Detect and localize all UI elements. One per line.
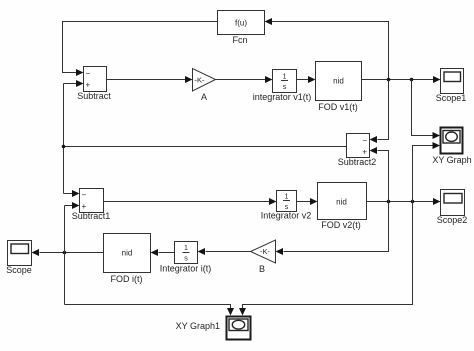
wire arrow into Subtract2 plus xyxy=(370,147,378,154)
block FOD v1(t) nid xyxy=(316,62,362,101)
wire Subtract output to gain A xyxy=(107,79,186,81)
wire v2 down to gain B xyxy=(284,202,389,252)
block Scope xyxy=(8,241,32,266)
svg-text:FOD v1(t): FOD v1(t) xyxy=(318,102,358,112)
svg-text:1: 1 xyxy=(283,74,287,81)
wire arrow into integrator v1 xyxy=(265,76,273,83)
svg-text:Subtract2: Subtract2 xyxy=(338,157,377,167)
svg-text:Subtract1: Subtract1 xyxy=(72,211,111,221)
wire Subtract2 output left xyxy=(64,146,347,148)
block integrator v1 1/s xyxy=(273,70,297,93)
wire arrow into Subtract2 minus xyxy=(370,136,378,143)
wire arrow into XY Graph input1 xyxy=(433,132,441,139)
wire to Subtract1 plus xyxy=(65,205,73,207)
block FOD i(t) nid xyxy=(104,234,151,273)
wire i net bottom to XY Graph1 input1 xyxy=(65,305,231,309)
wire FOD v2 output to Scope2 xyxy=(367,201,434,203)
wire arrow into XY Graph input2 xyxy=(433,142,441,149)
wire Subtract1 output to Integrator v2 xyxy=(104,201,270,203)
svg-text:Integrator i(t): Integrator i(t) xyxy=(160,264,212,274)
block XY Graph1 xyxy=(227,317,251,340)
svg-text:+: + xyxy=(362,148,367,157)
svg-text:s: s xyxy=(184,256,188,263)
block Subtract2 xyxy=(347,134,370,158)
wire gain A to integrator v1 xyxy=(216,79,266,81)
svg-text:FOD i(t): FOD i(t) xyxy=(111,274,143,284)
wire arrow into Subtract plus xyxy=(76,80,84,87)
svg-text:nid: nid xyxy=(336,198,347,207)
svg-text:Scope2: Scope2 xyxy=(437,215,468,225)
wire v1 feedback to Fcn input xyxy=(272,22,389,80)
wire arrow into FOD i xyxy=(151,249,159,256)
wire FOD i output to Scope xyxy=(40,252,104,254)
node junction v1 net right xyxy=(410,78,414,82)
svg-text:XY Graph1: XY Graph1 xyxy=(176,321,220,331)
wire v2 up to XY Graph input2 xyxy=(413,146,434,202)
wire arrow into Scope xyxy=(32,249,40,256)
wire v1 down to Subtract2 minus xyxy=(378,80,389,140)
svg-text:B: B xyxy=(259,264,265,274)
block Scope1 xyxy=(441,69,464,94)
svg-text:nid: nid xyxy=(122,249,133,258)
wire Subtract2 net vertical xyxy=(63,84,65,194)
svg-text:s: s xyxy=(283,84,287,91)
wire arrow into XY Graph1 input1 xyxy=(227,308,234,316)
svg-text:−: − xyxy=(86,69,91,78)
wire Integrator i to FOD i xyxy=(159,252,175,254)
gain A xyxy=(193,69,216,92)
wire to Subtract1 minus xyxy=(64,193,73,195)
wire v2 up to Subtract2 plus xyxy=(378,151,389,202)
svg-text:Integrator v2: Integrator v2 xyxy=(261,211,312,221)
node junction Subtract2 net xyxy=(62,145,66,149)
svg-text:Scope: Scope xyxy=(6,265,32,275)
block Subtract1 xyxy=(80,189,104,213)
svg-text:−: − xyxy=(362,136,367,145)
gain B xyxy=(251,240,276,263)
svg-text:nid: nid xyxy=(333,77,344,86)
block Subtract xyxy=(84,67,107,92)
svg-text:-K-: -K- xyxy=(195,76,206,85)
node junction v1 net left xyxy=(387,78,391,82)
wire arrow into FOD v1 xyxy=(308,76,316,83)
wire Integrator v2 to FOD v2 xyxy=(297,201,311,203)
wire arrow into Subtract minus xyxy=(76,69,84,76)
wire arrow into Subtract1 minus xyxy=(72,190,80,197)
block Integrator v2 1/s xyxy=(277,191,297,212)
wire arrow into gain A xyxy=(185,76,193,83)
wire arrow into gain B xyxy=(276,248,284,255)
wire v2 down to XY Graph1 input2 xyxy=(243,202,413,309)
block Fcn f(u) xyxy=(218,11,265,35)
wire arrow into Integrator v2 xyxy=(269,198,277,205)
wire arrow into Scope1 xyxy=(433,76,441,83)
svg-text:+: + xyxy=(86,81,91,90)
wire Fcn output to Subtract minus input xyxy=(63,22,218,73)
svg-text:1: 1 xyxy=(285,194,289,201)
svg-text:A: A xyxy=(201,92,207,102)
block Integrator i 1/s xyxy=(175,242,198,264)
wire arrow into Scope2 xyxy=(433,198,441,205)
svg-text:−: − xyxy=(82,191,87,200)
wire arrow into XY Graph1 input2 xyxy=(239,308,246,316)
svg-text:Fcn: Fcn xyxy=(232,35,247,45)
node junction v2 net right xyxy=(411,200,415,204)
svg-text:XY Graph: XY Graph xyxy=(432,155,471,165)
block FOD v2(t) nid xyxy=(318,183,367,220)
wire arrow into Subtract1 plus xyxy=(72,202,80,209)
wire integrator v1 to FOD v1 xyxy=(297,79,309,81)
wire v1 down to XY Graph input1 xyxy=(412,80,434,136)
node junction v2 net left xyxy=(387,200,391,204)
svg-text:integrator v1(t): integrator v1(t) xyxy=(253,92,312,102)
svg-text:+: + xyxy=(82,202,87,211)
wire gain B to Integrator i xyxy=(206,251,251,253)
wire arrow into Fcn xyxy=(265,18,273,25)
wire FOD v1 output to Scope1 xyxy=(362,79,434,81)
wire arrow into FOD v2 xyxy=(310,198,318,205)
svg-text:Scope1: Scope1 xyxy=(436,93,467,103)
svg-text:Subtract: Subtract xyxy=(77,91,111,101)
svg-text:FOD v2(t): FOD v2(t) xyxy=(321,220,361,230)
wire to Subtract plus xyxy=(64,83,77,85)
wire i net vertical xyxy=(64,206,66,305)
block XY Graph xyxy=(441,128,463,154)
svg-text:f(u): f(u) xyxy=(235,19,247,28)
node junction i net xyxy=(63,251,67,255)
svg-text:-K-: -K- xyxy=(260,247,271,256)
wire arrow into Integrator i xyxy=(198,248,206,255)
block Scope2 xyxy=(441,190,465,216)
svg-text:1: 1 xyxy=(184,245,188,252)
